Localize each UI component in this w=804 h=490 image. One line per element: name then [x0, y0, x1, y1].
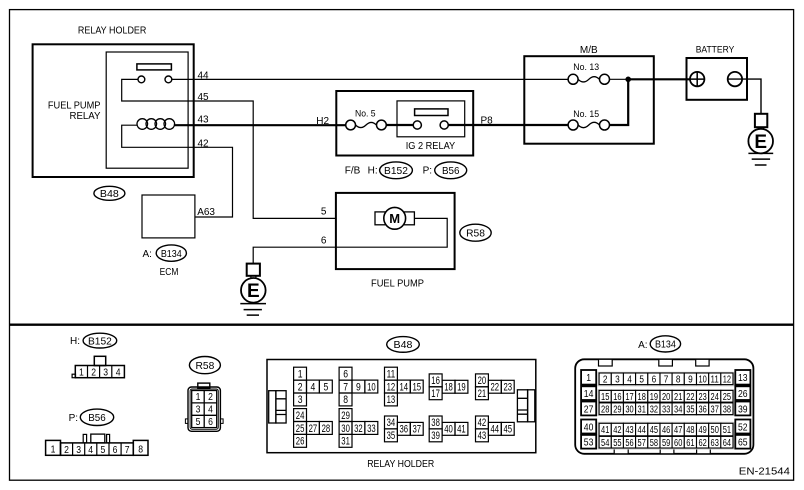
svg-text:45: 45 [198, 92, 210, 103]
svg-text:B56: B56 [88, 412, 106, 424]
svg-text:31: 31 [638, 404, 647, 415]
wire P8 bold [448, 124, 568, 126]
svg-text:32: 32 [650, 404, 659, 415]
svg-text:5: 5 [639, 374, 644, 385]
fuel pump box [336, 193, 455, 269]
svg-text:27: 27 [584, 403, 594, 415]
svg-text:32: 32 [354, 423, 363, 435]
svg-text:P:: P: [69, 413, 78, 424]
battery minus terminal [728, 72, 742, 86]
svg-text:2: 2 [64, 444, 69, 456]
ground E fuel pump [240, 264, 266, 316]
svg-text:3: 3 [76, 444, 81, 456]
svg-text:44: 44 [198, 70, 210, 81]
svg-text:36: 36 [400, 424, 409, 436]
svg-text:21: 21 [674, 392, 683, 403]
svg-text:3: 3 [615, 374, 620, 385]
svg-text:18: 18 [444, 382, 453, 394]
svg-text:45: 45 [650, 425, 659, 436]
svg-text:51: 51 [723, 425, 732, 436]
svg-text:22: 22 [491, 382, 500, 394]
right clip [517, 390, 534, 422]
svg-text:31: 31 [341, 436, 350, 448]
B48 pin groups [294, 367, 515, 447]
svg-text:A:: A: [143, 249, 152, 260]
B134 outer shell [575, 359, 753, 454]
wire 43 bold [174, 124, 346, 126]
svg-text:41: 41 [601, 425, 610, 436]
svg-text:4: 4 [627, 374, 632, 385]
svg-text:9: 9 [688, 374, 693, 385]
connector oval B48 bottom [387, 337, 420, 353]
svg-text:4: 4 [311, 381, 316, 393]
svg-text:8: 8 [343, 394, 348, 406]
junction dot [625, 77, 631, 83]
svg-text:56: 56 [625, 438, 634, 449]
ground E battery [748, 114, 773, 165]
svg-text:18: 18 [638, 392, 647, 403]
svg-text:24: 24 [296, 410, 305, 422]
svg-text:16: 16 [613, 392, 622, 403]
svg-text:33: 33 [662, 404, 671, 415]
svg-text:M: M [389, 211, 400, 226]
svg-text:9: 9 [356, 381, 361, 393]
svg-text:No. 5: No. 5 [355, 109, 376, 120]
svg-text:2: 2 [603, 374, 608, 385]
motor wiring inside pump [253, 218, 447, 263]
svg-text:42: 42 [198, 138, 210, 149]
svg-text:M/B: M/B [580, 45, 598, 56]
wire battery to ground [728, 79, 761, 114]
svg-text:43: 43 [198, 114, 210, 125]
svg-text:25: 25 [723, 392, 732, 403]
svg-text:29: 29 [613, 404, 622, 415]
svg-text:19: 19 [650, 392, 659, 403]
svg-text:1: 1 [51, 443, 56, 455]
svg-text:13: 13 [738, 372, 748, 384]
connector oval R58 [460, 224, 491, 241]
svg-text:65: 65 [738, 437, 748, 449]
svg-text:B56: B56 [442, 165, 460, 177]
svg-text:40: 40 [584, 421, 594, 433]
svg-text:8: 8 [676, 374, 681, 385]
svg-text:33: 33 [367, 423, 376, 435]
svg-text:2: 2 [91, 367, 96, 379]
svg-text:1: 1 [298, 368, 303, 380]
svg-text:5: 5 [321, 207, 327, 218]
svg-text:A:: A: [638, 340, 647, 351]
svg-text:29: 29 [341, 410, 350, 422]
svg-text:H2: H2 [316, 116, 329, 127]
svg-text:E: E [754, 132, 767, 153]
svg-text:6: 6 [113, 444, 118, 456]
svg-text:12: 12 [723, 374, 732, 385]
B48 relay holder connector box [267, 360, 536, 453]
svg-text:44: 44 [638, 425, 647, 436]
B134 connector drawing [575, 359, 753, 454]
left clip [269, 391, 286, 423]
wire fuse to relay [386, 124, 413, 126]
svg-text:FUEL PUMP: FUEL PUMP [48, 101, 101, 112]
IG 2 relay box [336, 91, 473, 156]
svg-text:5: 5 [324, 381, 329, 393]
svg-text:B134: B134 [161, 248, 182, 260]
svg-text:11: 11 [387, 368, 396, 380]
svg-text:37: 37 [711, 404, 720, 415]
svg-text:36: 36 [698, 404, 707, 415]
wire fuse13 to junction [610, 78, 629, 80]
svg-text:40: 40 [444, 424, 453, 436]
ECM box [142, 195, 195, 238]
svg-text:58: 58 [650, 438, 659, 449]
svg-text:43: 43 [625, 425, 634, 436]
svg-text:1: 1 [79, 367, 84, 379]
svg-text:50: 50 [711, 425, 720, 436]
svg-text:23: 23 [504, 382, 513, 394]
svg-text:8: 8 [138, 443, 143, 455]
B134 bottom tabs [614, 447, 628, 454]
svg-text:6: 6 [208, 416, 213, 428]
svg-text:38: 38 [431, 417, 440, 429]
motor M [375, 212, 388, 225]
svg-text:34: 34 [387, 417, 396, 429]
svg-text:B48: B48 [394, 339, 413, 351]
svg-text:39: 39 [738, 403, 748, 415]
B134 gray bands [598, 372, 735, 387]
wire 42 [122, 125, 233, 217]
svg-text:E: E [247, 281, 260, 302]
svg-text:2: 2 [208, 391, 213, 403]
svg-text:42: 42 [613, 425, 622, 436]
svg-text:H:: H: [70, 336, 80, 347]
svg-text:53: 53 [584, 437, 594, 449]
relay holder box [33, 44, 194, 177]
svg-text:7: 7 [125, 444, 130, 456]
svg-text:42: 42 [478, 417, 487, 429]
svg-text:27: 27 [309, 423, 318, 435]
svg-text:30: 30 [625, 404, 634, 415]
svg-text:2: 2 [298, 381, 303, 393]
svg-text:4: 4 [208, 404, 213, 416]
svg-text:6: 6 [321, 235, 327, 246]
svg-text:5: 5 [101, 444, 106, 456]
svg-text:6: 6 [652, 374, 657, 385]
svg-text:34: 34 [674, 404, 683, 415]
svg-text:IG 2 RELAY: IG 2 RELAY [406, 141, 456, 152]
relay contact terminals [138, 76, 145, 83]
svg-text:30: 30 [341, 423, 350, 435]
svg-text:17: 17 [431, 388, 440, 400]
svg-text:23: 23 [698, 392, 707, 403]
svg-text:60: 60 [674, 438, 683, 449]
svg-text:14: 14 [400, 381, 409, 393]
svg-text:B48: B48 [100, 188, 119, 200]
svg-text:16: 16 [431, 375, 440, 387]
svg-text:No. 15: No. 15 [573, 109, 599, 120]
IG2 relay terminals [413, 121, 421, 129]
connector oval B48 [94, 186, 125, 200]
svg-text:5: 5 [196, 416, 201, 428]
svg-text:15: 15 [413, 381, 422, 393]
svg-text:3: 3 [298, 394, 303, 406]
B134 middle pin rows [599, 373, 611, 385]
B56 connector drawing [46, 434, 148, 456]
svg-text:44: 44 [491, 424, 500, 436]
B134 left column pins [581, 370, 596, 385]
svg-text:61: 61 [686, 438, 695, 449]
svg-text:24: 24 [711, 392, 720, 403]
svg-text:BATTERY: BATTERY [696, 45, 735, 56]
relay contact bar [137, 64, 172, 70]
svg-text:12: 12 [387, 381, 396, 393]
svg-text:RELAY HOLDER: RELAY HOLDER [78, 25, 146, 36]
svg-text:41: 41 [457, 424, 466, 436]
svg-text:11: 11 [711, 374, 720, 385]
IG2 relay inner box [397, 101, 465, 137]
IG2 relay contact bar [415, 109, 448, 116]
svg-text:10: 10 [367, 381, 376, 393]
svg-text:H:: H: [368, 165, 378, 176]
svg-text:62: 62 [698, 438, 707, 449]
svg-text:28: 28 [601, 404, 610, 415]
connector R58 [189, 357, 220, 374]
svg-text:25: 25 [296, 423, 305, 435]
svg-text:P:: P: [423, 165, 432, 176]
svg-text:13: 13 [387, 394, 396, 406]
section separator [10, 324, 794, 326]
svg-text:EN-21544: EN-21544 [739, 465, 790, 477]
svg-text:46: 46 [662, 425, 671, 436]
svg-text:R58: R58 [196, 360, 215, 372]
wire fuse15 to junction bold [610, 79, 629, 125]
svg-text:43: 43 [478, 430, 487, 442]
svg-text:RELAY: RELAY [70, 111, 101, 122]
svg-text:59: 59 [662, 438, 671, 449]
wire junction to battery bold [628, 78, 690, 80]
svg-text:57: 57 [638, 438, 647, 449]
svg-text:64: 64 [723, 438, 732, 449]
svg-text:49: 49 [698, 425, 707, 436]
svg-text:3: 3 [196, 404, 201, 416]
svg-text:38: 38 [723, 404, 732, 415]
svg-text:4: 4 [116, 367, 121, 379]
svg-text:B152: B152 [384, 165, 408, 177]
svg-text:35: 35 [686, 404, 695, 415]
svg-text:26: 26 [296, 436, 305, 448]
svg-text:19: 19 [457, 382, 466, 394]
fuel pump relay inner box [106, 52, 188, 168]
svg-text:B152: B152 [88, 335, 112, 347]
svg-text:39: 39 [431, 430, 440, 442]
svg-text:P8: P8 [481, 116, 494, 127]
svg-text:21: 21 [478, 388, 487, 400]
svg-text:1: 1 [586, 372, 591, 384]
B134 top tabs [599, 359, 613, 366]
svg-text:1: 1 [196, 391, 201, 403]
svg-text:10: 10 [698, 374, 707, 385]
svg-text:15: 15 [601, 392, 610, 403]
svg-text:20: 20 [478, 375, 487, 387]
svg-text:6: 6 [343, 368, 348, 380]
svg-text:FUEL PUMP: FUEL PUMP [371, 279, 424, 290]
B152 connector drawing [72, 356, 124, 378]
svg-text:28: 28 [322, 423, 331, 435]
svg-text:F/B: F/B [345, 165, 361, 176]
svg-text:54: 54 [601, 438, 610, 449]
svg-text:35: 35 [387, 430, 396, 442]
svg-text:22: 22 [686, 392, 695, 403]
svg-text:45: 45 [504, 424, 513, 436]
svg-text:26: 26 [738, 388, 748, 400]
battery plus terminal [690, 72, 704, 86]
B134 right column pins [735, 370, 750, 385]
wire 44 [172, 78, 568, 80]
svg-text:No. 13: No. 13 [573, 62, 599, 73]
R58 connector drawing [185, 383, 223, 431]
svg-text:52: 52 [738, 421, 748, 433]
wire 45 [122, 79, 336, 218]
svg-text:7: 7 [664, 374, 669, 385]
svg-text:ECM: ECM [160, 267, 179, 278]
svg-text:14: 14 [584, 388, 594, 400]
svg-text:7: 7 [343, 381, 348, 393]
svg-text:63: 63 [711, 438, 720, 449]
svg-text:47: 47 [674, 425, 683, 436]
svg-text:37: 37 [413, 424, 422, 436]
svg-text:R58: R58 [466, 228, 485, 240]
svg-text:RELAY HOLDER: RELAY HOLDER [367, 459, 434, 470]
svg-text:17: 17 [625, 392, 634, 403]
svg-text:3: 3 [103, 367, 108, 379]
svg-text:4: 4 [88, 444, 93, 456]
svg-text:B134: B134 [655, 339, 676, 351]
svg-text:55: 55 [613, 438, 622, 449]
svg-text:20: 20 [662, 392, 671, 403]
svg-text:A63: A63 [197, 207, 215, 218]
svg-text:48: 48 [686, 425, 695, 436]
relay coil [137, 119, 175, 130]
